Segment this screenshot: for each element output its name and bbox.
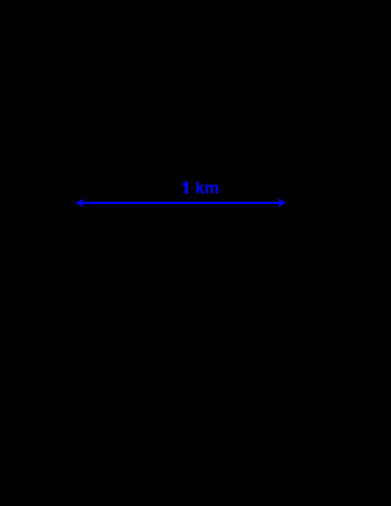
label digit 1 [183, 181, 188, 194]
right arrowhead [277, 198, 286, 207]
svg-text:km: km [195, 180, 219, 198]
left arrowhead [76, 198, 85, 207]
wire: scale-bar shaft [80, 202, 282, 204]
